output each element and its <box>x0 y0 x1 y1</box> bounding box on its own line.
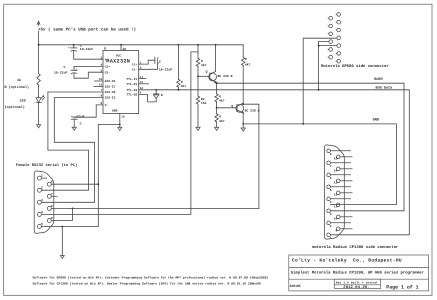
svg-text:GND: GND <box>112 110 118 113</box>
svg-text:Simplest Motorola Radius CP120: Simplest Motorola Radius CP1200, GP 600 … <box>291 270 425 275</box>
svg-text:4k7: 4k7 <box>181 84 187 88</box>
node junction Q2 base <box>216 107 218 109</box>
wire DB9 pin8 CTS line <box>51 207 259 209</box>
node junction rail-R1 <box>197 44 199 46</box>
connector J3 DB15 CP1300 shell <box>324 145 344 239</box>
svg-text:7: 7 <box>330 165 332 168</box>
ground (R2) <box>196 127 200 130</box>
svg-text:10-22uF: 10-22uF <box>159 68 172 72</box>
svg-text:232-I2: 232-I2 <box>105 97 116 100</box>
svg-text:1: 1 <box>330 237 332 240</box>
wire U1 pin8 to DB9 pin3 <box>42 98 104 203</box>
svg-text:3: 3 <box>41 199 43 202</box>
svg-text:4k7: 4k7 <box>219 99 225 103</box>
capacitor C3 10-22uF (C1+/C1-) <box>139 57 173 71</box>
svg-text:8: 8 <box>51 205 53 208</box>
svg-text:232-O1: 232-O1 <box>105 80 116 83</box>
wire DB9 pin9 to pin8 <box>51 208 72 220</box>
resistor R1 4k7 (Q1 base upper) <box>196 45 206 77</box>
wire GND branch to DB9 pin6 <box>51 183 98 185</box>
node junction D1-BUSdata <box>155 89 157 91</box>
U1 pin 16 wire <box>120 45 122 51</box>
svg-text:15: 15 <box>121 116 125 119</box>
wire GP600 GND pin riser <box>303 38 337 124</box>
svg-text:7: 7 <box>51 193 53 196</box>
svg-text:10: 10 <box>334 218 338 221</box>
svg-text:TTL-I1: TTL-I1 <box>126 78 137 81</box>
svg-text:R (optional): R (optional) <box>5 85 29 90</box>
svg-text:14: 14 <box>334 170 338 173</box>
node junction pin15-GND tap <box>119 124 121 126</box>
U1 pin 13 stub (NC) <box>94 86 103 88</box>
svg-text:9: 9 <box>335 230 337 233</box>
svg-text:GND: GND <box>373 118 380 123</box>
svg-text:R: R <box>245 57 247 61</box>
U1 pin 15 ground wire <box>120 114 125 128</box>
wire BUS Data (U1 pin10 to DB15 pin1) <box>139 90 410 235</box>
svg-text:8: 8 <box>330 153 332 156</box>
svg-text:BC 238 B: BC 238 B <box>245 108 260 112</box>
svg-text:MAX232N: MAX232N <box>106 59 130 65</box>
node junction rail-R4 <box>178 44 180 46</box>
node junction rail-Q1 collector <box>215 44 217 46</box>
svg-text:TTL-I2: TTL-I2 <box>126 89 137 92</box>
svg-text:Female RS232 serial (to PC): Female RS232 serial (to PC) <box>16 163 78 168</box>
wire U1 pin7 to DB9 pin2 <box>42 92 104 190</box>
svg-text:Q: Q <box>231 104 233 108</box>
svg-text:22uF: 22uF <box>77 115 85 119</box>
U1 pin 11 stub (NC) <box>139 78 146 80</box>
svg-text:2012.04.20.: 2012.04.20. <box>343 285 369 290</box>
ground (DB9 pin5) <box>60 256 64 259</box>
svg-text:6: 6 <box>330 177 332 180</box>
wire DTR line (DB9 pin4 to +5V) <box>42 52 199 215</box>
wire Q2 base <box>217 107 237 109</box>
node junction riser-BUSdata <box>318 89 320 91</box>
resistor R3 4k7 (Q2 collector pull-up) <box>242 45 251 104</box>
wire GND line to DB15 pin11 <box>243 124 396 205</box>
U1 right pin numbers <box>140 61 144 94</box>
svg-text:BUSY: BUSY <box>374 77 384 82</box>
svg-text:V-: V- <box>105 104 109 107</box>
node junction Q1 emitter / BUSY <box>216 82 218 84</box>
svg-text:4: 4 <box>41 211 43 214</box>
svg-text:V+: V+ <box>105 58 109 61</box>
ground (R6) <box>215 127 219 130</box>
svg-text:4k7: 4k7 <box>201 63 207 67</box>
wire DB9 pin5 ground <box>42 226 99 228</box>
svg-text:Q: Q <box>206 69 208 73</box>
svg-text:1: 1 <box>41 175 43 178</box>
svg-text:Rev 1.0 built + tested: Rev 1.0 built + tested <box>336 280 377 284</box>
diode D1 <box>139 90 163 102</box>
svg-text:Motorola GP600 side connector: Motorola GP600 side connector <box>321 64 389 69</box>
svg-text:U: U <box>104 47 106 52</box>
J1 pins right column <box>47 182 57 222</box>
svg-text:TTL-O2: TTL-O2 <box>126 94 137 97</box>
wire GP600 BUS data riser <box>319 42 337 90</box>
node junction riser-pinB5 <box>318 45 320 47</box>
svg-text:BC 238 B: BC 238 B <box>218 74 233 78</box>
svg-text:9: 9 <box>51 217 53 220</box>
svg-text:C2-: C2- <box>105 71 111 74</box>
svg-text:BUS Data: BUS Data <box>376 86 394 91</box>
svg-text:D: D <box>161 93 163 97</box>
title block table <box>289 255 429 291</box>
svg-text:15: 15 <box>334 158 338 161</box>
J3 pins left column <box>327 149 351 237</box>
IC U1 MAX232N body <box>103 47 139 114</box>
J3 pins right column <box>336 155 352 231</box>
ground (C4) <box>72 127 76 130</box>
capacitor C4 22uF (V-) <box>71 105 103 127</box>
svg-text:15k: 15k <box>201 101 207 105</box>
transistor Q1 BC 238 B <box>206 45 233 84</box>
wire Q2 collector to DB9 pin8 line <box>243 104 259 208</box>
wire GND to DB9 pin5/pin6 <box>98 124 120 226</box>
svg-text:12: 12 <box>334 194 338 197</box>
node junction rail-C1 <box>73 44 75 46</box>
svg-text:11: 11 <box>334 206 338 209</box>
svg-text:AnteK: AnteK <box>290 284 302 289</box>
resistor R5 4k7 (Q2 base upper) <box>215 83 225 108</box>
svg-text:5: 5 <box>101 69 103 72</box>
svg-text:1k: 1k <box>17 78 21 83</box>
connector J2 Motorola GP600 side (pin circles) <box>328 13 341 63</box>
svg-text:C: C <box>64 65 66 69</box>
svg-text:C1-: C1- <box>132 69 138 72</box>
node junction R4-BUSdata <box>178 89 180 91</box>
svg-text:Software for GP600 (tested on: Software for GP600 (tested on Win XP): C… <box>33 276 269 280</box>
svg-text:2: 2 <box>41 187 43 190</box>
U1 left pin numbers <box>99 56 103 105</box>
svg-text:3: 3 <box>330 213 332 216</box>
node junction GND-pin6 <box>97 183 99 185</box>
svg-text:TTL-O1: TTL-O1 <box>126 83 137 86</box>
svg-text:6: 6 <box>51 181 53 184</box>
svg-text:motorola Radius CP1300 side co: motorola Radius CP1300 side connector <box>312 245 399 250</box>
+5V supply arrow <box>37 21 40 45</box>
U1 pin 14 stub (NC) <box>95 80 103 82</box>
svg-text:16: 16 <box>122 47 126 51</box>
J1 pins left column <box>37 176 47 228</box>
svg-text:+: + <box>68 47 70 50</box>
ground (U1 pin15) <box>118 127 122 130</box>
capacitor C1 10-22uF <box>68 43 103 59</box>
U1 left pin labels <box>105 58 116 107</box>
svg-text:LED: LED <box>20 99 26 104</box>
ground (Q2 emitter) <box>241 128 245 131</box>
svg-text:4: 4 <box>330 201 332 204</box>
svg-text:10-22uF: 10-22uF <box>80 47 93 51</box>
wire BUSY (Q1 emitter to DB15 pin3) <box>217 83 404 211</box>
svg-text:Co'Lty - Ko'teleky Co., Budap: Co'Lty - Ko'teleky Co., Budapest-HU <box>292 258 402 264</box>
svg-text:C2+: C2+ <box>105 66 111 69</box>
node junction Q2 collector <box>242 103 244 105</box>
svg-text:5: 5 <box>41 223 43 226</box>
svg-text:Page 1 of 1: Page 1 of 1 <box>386 284 418 290</box>
LED (optional) <box>5 85 45 125</box>
svg-text:2: 2 <box>101 56 103 59</box>
wire Q2 emitter to GND rail <box>242 113 244 128</box>
U1 right pin labels <box>126 63 137 96</box>
svg-text:10-22uF: 10-22uF <box>54 71 67 75</box>
svg-text:4k7: 4k7 <box>245 62 251 66</box>
resistor R4 4k7 (BUS data pull-up) <box>177 45 187 90</box>
svg-text:C: C <box>80 122 82 126</box>
J3 pin numbers <box>330 153 332 240</box>
J1 pin numbers <box>41 175 53 226</box>
svg-text:13: 13 <box>334 182 338 185</box>
resistor R6 4k7 (Q2 base lower) <box>215 108 225 128</box>
svg-text:C1+: C1+ <box>132 63 138 66</box>
svg-text:C: C <box>159 59 161 63</box>
transistor Q2 BC 238 B <box>231 103 259 113</box>
wire Q1 base <box>198 75 210 77</box>
node junction GND line riser <box>302 123 304 125</box>
U1 pin 12 stub (NC) <box>139 83 149 85</box>
svg-text:232-I1: 232-I1 <box>105 86 116 89</box>
svg-text:5: 5 <box>330 189 332 192</box>
svg-text:(optional): (optional) <box>5 105 25 110</box>
node junction rail-pin16 <box>120 44 122 46</box>
ground (LED branch) <box>37 125 41 128</box>
svg-text:Software for CP1300 (tested on: Software for CP1300 (tested on Win XP): … <box>33 282 261 286</box>
svg-text:4: 4 <box>101 64 103 67</box>
svg-text:VCC: VCC <box>116 55 122 58</box>
svg-text:2: 2 <box>330 225 332 228</box>
wire +5V rail <box>39 44 244 46</box>
node junction Q2 emitter GND <box>242 123 244 125</box>
svg-text:4k7: 4k7 <box>219 119 225 123</box>
node junction pin8/pin9 tie <box>72 208 74 210</box>
svg-text:232-O2: 232-O2 <box>105 91 116 94</box>
capacitor C2 10-22uF <box>54 65 103 78</box>
resistor R7 1k (optional, LED branch) <box>5 45 41 90</box>
connector J1 DB9 female RS232 shell <box>34 171 54 233</box>
resistor R2 15k <box>196 76 206 127</box>
node junction Q1 base <box>197 75 199 77</box>
